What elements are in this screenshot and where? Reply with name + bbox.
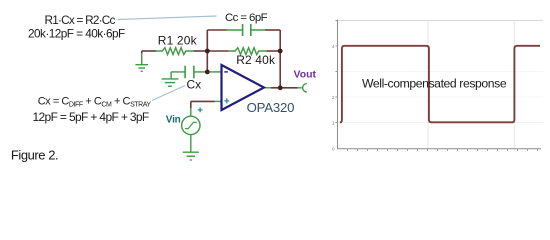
svg-text:Cx = CDIFF + CCM + CSTRAY: Cx = CDIFF + CCM + CSTRAY <box>38 96 152 109</box>
svg-text:1: 1 <box>332 121 335 126</box>
svg-text:Cx: Cx <box>187 78 202 92</box>
svg-text:Figure 2.: Figure 2. <box>11 148 58 163</box>
svg-text:R2 40k: R2 40k <box>236 53 276 67</box>
svg-text:Vout: Vout <box>294 69 317 81</box>
svg-text:12pF = 5pF + 4pF + 3pF: 12pF = 5pF + 4pF + 3pF <box>33 110 149 124</box>
svg-text:0: 0 <box>332 147 335 152</box>
svg-text:Vin: Vin <box>166 114 181 125</box>
svg-text:R1·Cx = R2·Cc: R1·Cx = R2·Cc <box>45 13 116 27</box>
svg-text:20k·12pF = 40k·6pF: 20k·12pF = 40k·6pF <box>28 27 125 41</box>
svg-text:OPA320: OPA320 <box>247 100 295 115</box>
svg-text:Well-compensated response: Well-compensated response <box>362 77 507 91</box>
svg-text:2: 2 <box>332 95 335 100</box>
svg-text:R1 20k: R1 20k <box>158 34 198 48</box>
svg-text:Cc = 6pF: Cc = 6pF <box>225 12 268 24</box>
svg-text:4: 4 <box>332 44 335 49</box>
